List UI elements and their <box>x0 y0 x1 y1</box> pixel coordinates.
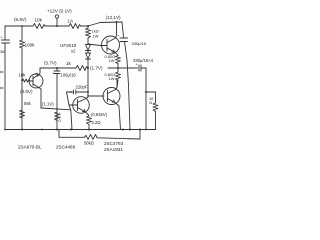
svg-text:1W: 1W <box>109 58 115 63</box>
svg-text:1W: 1W <box>93 34 99 39</box>
svg-text:1k: 1k <box>66 61 72 66</box>
svg-text:Ω: Ω <box>149 100 152 105</box>
svg-text:56k: 56k <box>24 101 32 106</box>
svg-text:(1.1V): (1.1V) <box>42 102 54 107</box>
svg-text:10k: 10k <box>19 73 27 78</box>
svg-text:2SC4468: 2SC4468 <box>56 145 76 150</box>
svg-text:36: 36 <box>0 49 5 54</box>
svg-text:UF2010: UF2010 <box>60 43 77 48</box>
svg-text:330μ/16: 330μ/16 <box>132 41 147 46</box>
svg-text:220pF: 220pF <box>76 85 88 90</box>
svg-text:10k: 10k <box>35 18 43 23</box>
svg-text:100k: 100k <box>25 43 36 48</box>
svg-text:(6.8V): (6.8V) <box>14 17 27 22</box>
svg-text:(4.5V): (4.5V) <box>20 89 33 94</box>
svg-text:(1.7V): (1.7V) <box>90 66 103 71</box>
svg-text:(12.1V): (12.1V) <box>106 15 122 20</box>
svg-text:2SA970-BL: 2SA970-BL <box>18 145 42 150</box>
svg-text:2SA1931: 2SA1931 <box>104 147 123 152</box>
svg-text:1A: 1A <box>68 19 75 24</box>
svg-text:2.2Ω: 2.2Ω <box>92 120 101 125</box>
svg-text:x2: x2 <box>71 49 76 54</box>
svg-text:1W: 1W <box>109 76 115 81</box>
svg-text:(5.7V): (5.7V) <box>44 61 57 66</box>
svg-text:(0.645V): (0.645V) <box>91 112 108 117</box>
svg-text:2SC4793: 2SC4793 <box>104 141 124 146</box>
svg-text:+12V (0.1V): +12V (0.1V) <box>47 9 72 14</box>
svg-text:56kΩ: 56kΩ <box>84 141 94 146</box>
svg-text:100μ/16: 100μ/16 <box>61 73 77 78</box>
